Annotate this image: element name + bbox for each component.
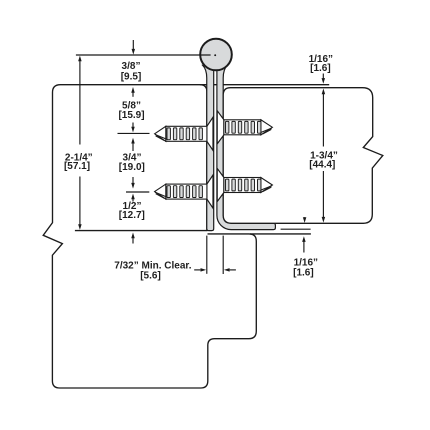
1/16 top down arrow shaft — [322, 74, 324, 79]
3/4 down arrow shaft — [132, 177, 134, 183]
svg-text:[9.5]: [9.5] — [121, 72, 142, 83]
screw head upper-left — [207, 117, 213, 150]
5/8 down arrow shaft — [132, 123, 134, 128]
door/jamb left structure outline — [43, 85, 256, 388]
svg-text:[1.6]: [1.6] — [293, 268, 314, 279]
7/32 right arrowhead — [201, 268, 207, 272]
1/16 bottom down arrowhead — [303, 217, 307, 223]
leaf bottom face ext (line A) — [281, 228, 311, 230]
2-1/4 bottom arrowhead — [78, 224, 82, 230]
5/8 up arrowhead — [131, 87, 135, 93]
svg-text:1/16”: 1/16” — [294, 257, 318, 268]
5/8 down arrowhead — [131, 127, 135, 133]
2-1/4 dim line — [79, 59, 81, 145]
bottom up arrow shaft — [132, 238, 134, 244]
stop top face extension line (line B) — [250, 233, 311, 235]
2-1/4 top arrowhead — [78, 56, 82, 62]
hinge knuckle — [200, 39, 232, 71]
screw lower-right — [224, 178, 273, 193]
top face extension line — [200, 84, 329, 86]
3/8 down arrowhead — [132, 49, 136, 55]
dimension graphics — [76, 40, 324, 274]
screw centerline ext lower — [126, 191, 149, 193]
svg-text:[1.6]: [1.6] — [310, 63, 331, 74]
svg-text:[5.6]: [5.6] — [140, 270, 161, 281]
screw upper-right — [224, 120, 273, 135]
1/16 bottom up arrowhead — [302, 236, 306, 242]
bottom up arrowhead — [131, 233, 135, 239]
3/4 down arrowhead — [131, 183, 135, 189]
7/32 clearance lines — [206, 236, 208, 274]
svg-text:[57.1]: [57.1] — [64, 161, 90, 172]
1-3/4 dim line — [322, 94, 324, 147]
door panel right — [223, 88, 383, 224]
arrowheads — [78, 49, 325, 272]
dimension texts — [64, 54, 338, 281]
1/16 bottom down arrow shaft — [304, 217, 306, 219]
1/16 top down arrowhead — [322, 78, 326, 84]
7/32 left arrowhead — [224, 268, 230, 272]
screw lower-left — [155, 184, 207, 199]
7/32 left-arrow shaft — [230, 269, 236, 271]
svg-text:[15.9]: [15.9] — [118, 110, 144, 121]
hinge leaf left (gray strip) — [203, 63, 214, 231]
1/2 up arrowhead — [131, 194, 135, 200]
svg-text:[19.0]: [19.0] — [119, 162, 145, 173]
hinge leaf right (L-shape gray) — [217, 63, 276, 230]
1-3/4 up arrowhead — [322, 89, 326, 95]
screw head upper-right — [217, 111, 224, 144]
3/8 top arrow shaft — [132, 40, 134, 50]
1-3/4 down arrowhead — [322, 217, 326, 223]
svg-text:[12.7]: [12.7] — [119, 210, 145, 221]
5/8 up arrow shaft — [132, 92, 134, 96]
screw head lower-right — [217, 168, 224, 201]
7/32 right-arrow shaft — [194, 269, 200, 271]
3/4 up arrow shaft — [132, 143, 134, 151]
dot at pin center — [214, 54, 216, 56]
svg-text:3/8”: 3/8” — [122, 61, 141, 72]
1/2 up arrow shaft — [132, 199, 134, 202]
svg-text:[44.4]: [44.4] — [309, 159, 335, 170]
screw centerline ext upper — [118, 132, 150, 134]
screw head lower-left — [207, 175, 213, 208]
3/4 up arrowhead — [131, 138, 135, 144]
pin center leader — [76, 54, 211, 56]
1/16 bottom up arrow shaft — [303, 241, 305, 253]
screw upper-left — [155, 126, 207, 141]
